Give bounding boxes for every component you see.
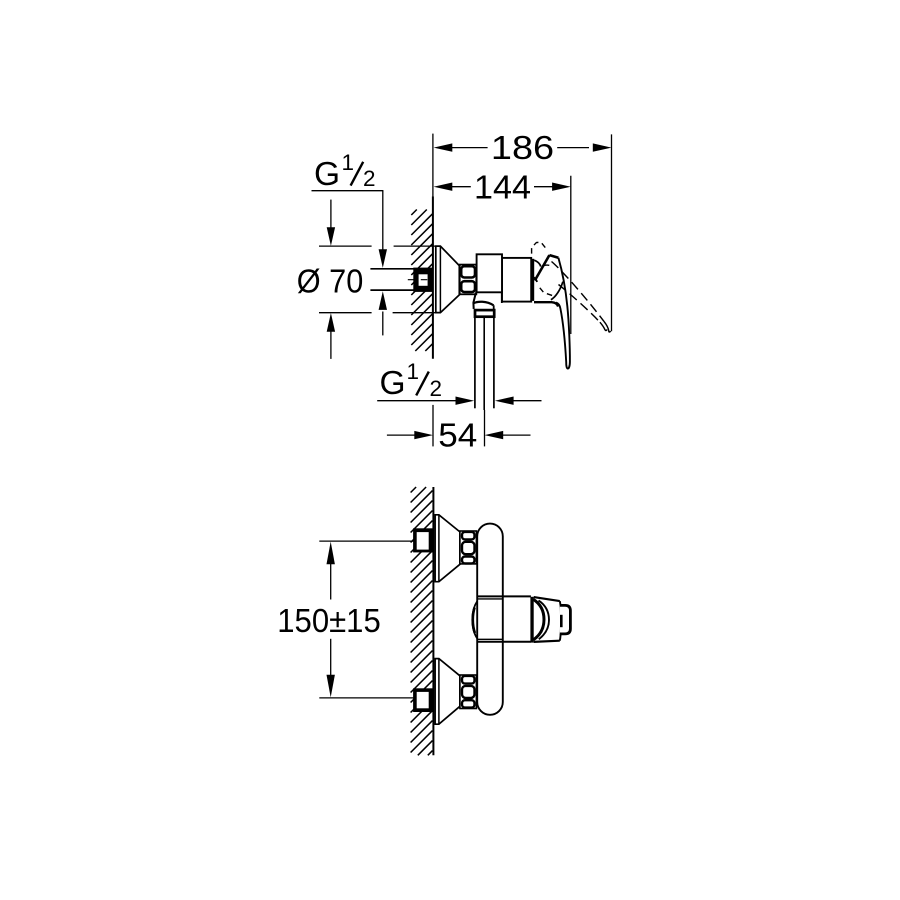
handle cap dome arc lower (top view) [534,277,537,282]
dia70 down arrow [330,200,332,228]
lens arc left of capsule (valve body) [472,601,477,638]
wall hatching (top view) [411,210,432,352]
dashed arc near pivot [544,265,553,267]
extension line for 54 at wall [432,405,434,447]
svg-text:150±15: 150±15 [277,603,381,640]
valve body section 2 (top view) [502,258,531,302]
outlet backnut (thick) [475,310,494,317]
svg-text:1: 1 [342,150,355,175]
extension line right 186 [611,134,613,331]
top hex nut (bottom view) [460,531,477,564]
dashed lever edge B [559,285,600,323]
handle cap dome arc upper (top view) [534,260,541,266]
pipe centerline (dash-dot) [408,279,428,281]
G1/2 leader vertical + down arrow [382,191,384,250]
dia70 bottom extension line [319,312,372,314]
dashed lever edge A [552,262,604,322]
knob tip (bottom view) [560,605,571,634]
wall union square (top view) [413,268,432,292]
knob slot [560,615,563,627]
outlet collar arc [474,302,494,306]
dia70 up arrow [330,331,332,359]
saddle curve between cap and lever [551,282,563,300]
dim 54 line + arrows [387,434,415,436]
extension top [319,540,413,542]
bottom escutcheon (bottom view) [435,659,460,725]
outlet elbow left chamfer [473,293,476,309]
bottom wall union square (bottom view) [413,688,433,712]
svg-text:Ø 70: Ø 70 [297,263,364,300]
dim 144 line + arrows [452,186,471,188]
handle wedge (top view) [535,255,559,280]
dashed lever tip outer curve [604,321,612,332]
supply pipe in wall (top view) [370,268,413,270]
wall face line (bottom view) [432,487,434,755]
cap dome bold arc [533,599,544,640]
G1/2 outlet leader + right arrow [377,400,456,402]
body bottom edge under handle base [534,302,558,306]
hex union nut (top view) [460,265,477,295]
svg-text:G: G [314,156,340,193]
handle cap (bottom view) [534,597,560,601]
bottom hex nut (bottom view) [460,675,477,709]
dashed lever tip inner curve [600,322,607,330]
extension bottom [319,697,413,699]
outlet elbow side wall (top view) [501,292,503,303]
top wall union square (bottom view) [413,528,433,552]
outlet pipe (top view) [474,318,476,409]
svg-text:144: 144 [474,169,531,206]
G1/2 outlet left arrow [514,400,542,402]
extension line for 54 at pipe axis [484,410,486,446]
svg-text:G: G [380,365,406,402]
cartridge housing band across capsule [477,595,531,597]
extension line above wall for 186/144 dims [432,134,434,197]
escutcheon flange+cone (top view) [436,246,460,313]
dashed handle alternate position: knob outline [532,242,548,253]
handle lever blade (top view) [556,258,570,369]
dim 186 line + arrows [452,147,488,149]
cap dome thin arc [539,600,550,639]
extension line right 144 [570,176,572,334]
body capsule (bottom view) [477,524,503,715]
wall hatching (bottom view) [411,487,433,755]
dim line segments [330,563,332,600]
down arrow [327,675,335,698]
top escutcheon (bottom view) [435,515,460,582]
up arrow [327,542,335,565]
svg-text:186: 186 [491,130,554,167]
joint band (bottom view, thick black) [530,597,533,643]
svg-text:2: 2 [430,376,443,401]
G1/2 leader underline [312,190,384,192]
wall face line (top view) [432,197,434,359]
dia70 top extension line [319,245,372,247]
valve body section 1 (top view) [477,254,502,292]
svg-text:54: 54 [438,418,477,455]
joint band between body and handle (top view, thick black) [531,259,534,301]
outlet collar right side [493,305,495,309]
svg-text:2: 2 [363,166,376,191]
G1/2 up arrow [382,312,384,336]
svg-text:1: 1 [407,359,420,384]
dashed lever base corner [540,288,553,296]
